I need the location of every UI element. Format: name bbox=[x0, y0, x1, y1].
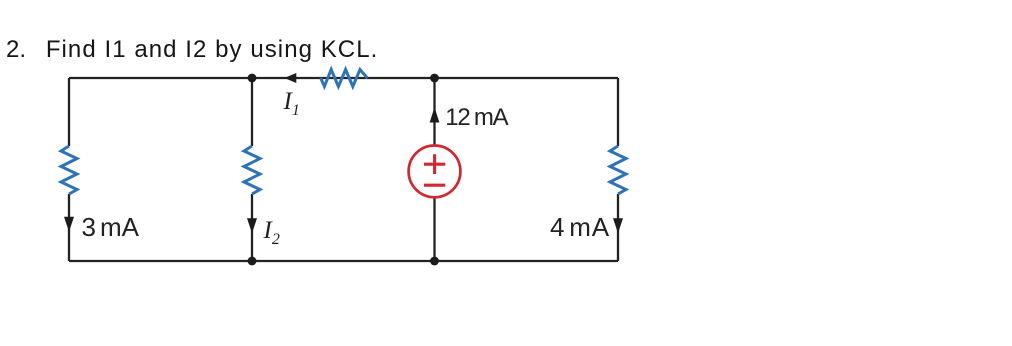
node dot: bottom of I2 branch bbox=[248, 257, 257, 266]
wire source branch upper segment bbox=[433, 78, 435, 145]
problem statement text bbox=[6, 38, 378, 62]
minus sign inside source bbox=[424, 184, 445, 187]
label I1 (current through top resistor) bbox=[284, 89, 300, 123]
node dot: top of I2 branch bbox=[248, 74, 257, 83]
wire middle (I2) branch lower segment bbox=[251, 194, 253, 261]
label 12 mA bbox=[445, 106, 507, 130]
wire bottom rail bbox=[69, 260, 618, 262]
resistor top (I1 branch, horizontal) bbox=[321, 70, 368, 87]
label 3 mA bbox=[82, 214, 139, 240]
wire right branch lower segment bbox=[617, 194, 619, 261]
arrow: 4 mA current direction (down) on right branch bbox=[613, 218, 623, 233]
wire middle (I2) branch upper segment bbox=[251, 78, 253, 146]
arrow: 3 mA current direction (down) on left branch bbox=[64, 217, 74, 232]
wire top rail bbox=[69, 77, 618, 79]
label 4 mA bbox=[550, 214, 610, 240]
wire left branch upper segment bbox=[68, 78, 70, 146]
resistor right branch (4 mA branch) bbox=[610, 146, 626, 194]
wire right branch upper segment bbox=[617, 78, 619, 146]
wire left branch lower segment bbox=[68, 194, 70, 261]
wire source branch lower segment bbox=[433, 198, 435, 261]
node dot: bottom of source branch bbox=[430, 257, 439, 266]
label I2 (current through middle resistor) bbox=[264, 218, 280, 252]
arrow: I1 current direction (left) on top rail bbox=[284, 73, 296, 83]
arrow: I2 current direction (down) on middle branch bbox=[247, 218, 257, 233]
arrow: 12 mA current direction (up) on source branch bbox=[430, 107, 440, 122]
source (circle with plus/minus) on 12 mA branch bbox=[409, 146, 461, 198]
plus sign inside source bbox=[424, 154, 445, 174]
resistor middle branch (I2 branch) bbox=[244, 146, 260, 194]
resistor left branch (3 mA branch) bbox=[61, 146, 77, 194]
node dot: top of source branch bbox=[430, 74, 439, 83]
